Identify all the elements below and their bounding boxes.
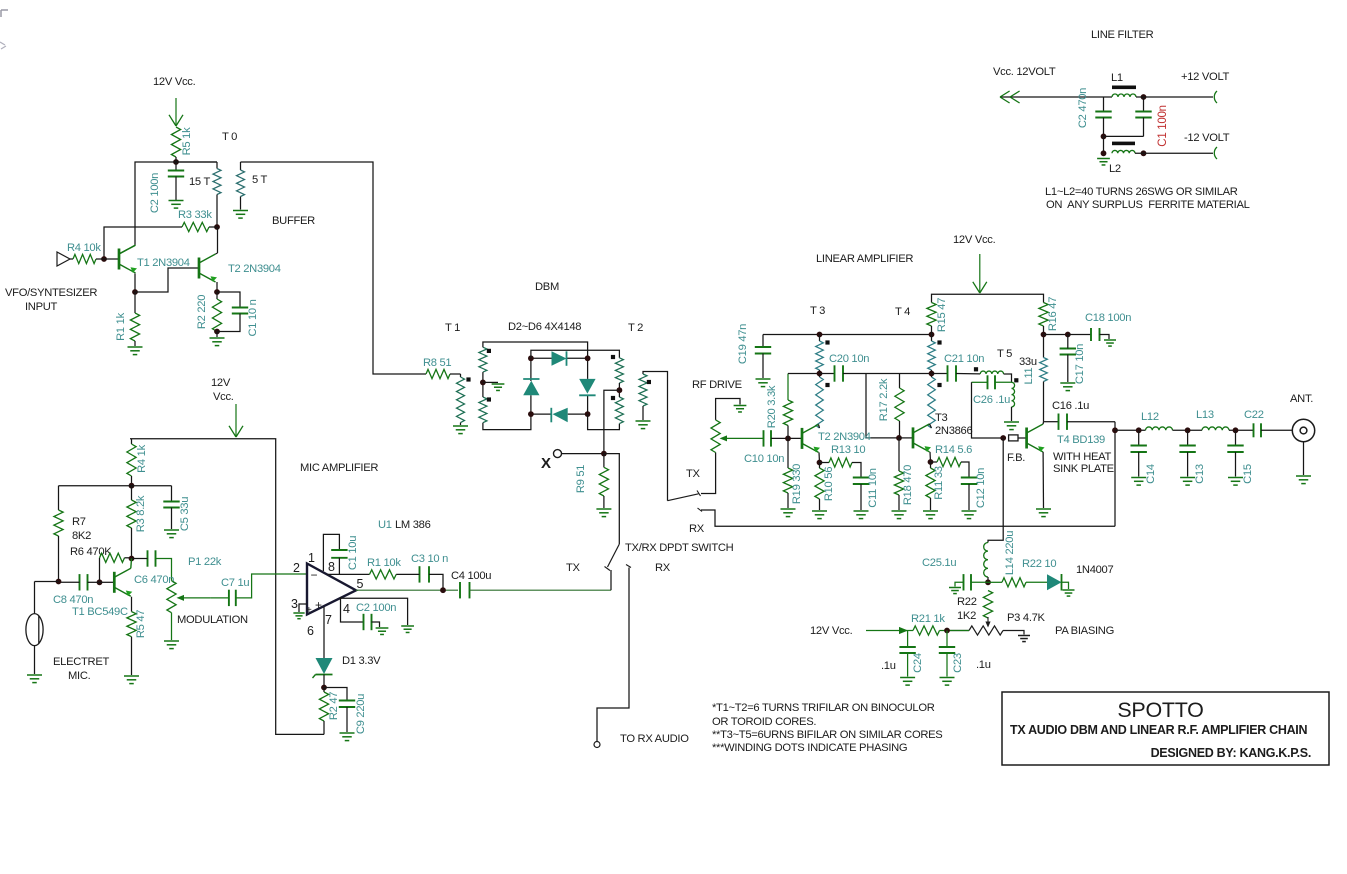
note L1L2 turns line2	[1046, 199, 1250, 211]
label C7 1u	[221, 577, 249, 589]
ground mic	[27, 675, 42, 683]
svg-text:DESIGNED BY: KANG.K.P.S.: DESIGNED BY: KANG.K.P.S.	[1151, 746, 1311, 760]
node R6 base junction	[97, 579, 103, 585]
capacitor C2 (filter)	[1095, 97, 1111, 136]
capacitor C23	[939, 631, 955, 677]
phasing dot T1 sec top	[487, 349, 491, 353]
ground T2 secondary	[636, 421, 651, 429]
transformer T5 primary	[980, 371, 1011, 382]
svg-text:MODULATION: MODULATION	[177, 614, 248, 626]
label L1	[1111, 72, 1123, 84]
label C11 10n	[867, 468, 879, 507]
node mic input junction	[56, 579, 62, 585]
wire T2 tap to X	[604, 390, 620, 453]
svg-text:C14: C14	[1145, 464, 1157, 484]
svg-text:R19 330: R19 330	[791, 464, 803, 504]
node C-junction left	[1101, 134, 1144, 140]
svg-text:T2 2N3904: T2 2N3904	[818, 431, 871, 443]
label MODULATION	[177, 614, 248, 626]
node FB junction	[1000, 435, 1006, 441]
resistor R1	[130, 292, 139, 346]
svg-text:C19 47n: C19 47n	[737, 324, 749, 364]
label R5 1k	[181, 127, 193, 155]
resistor R4 (mic)	[127, 439, 136, 486]
node L2 left junction	[1101, 150, 1107, 156]
wire L1 to +12 terminal	[1136, 96, 1213, 98]
svg-text:C13: C13	[1194, 464, 1206, 484]
node T2a emitter junction	[817, 460, 823, 466]
svg-text:ELECTRET: ELECTRET	[53, 656, 110, 668]
inductor L13	[1202, 427, 1229, 430]
label R5 47	[135, 610, 147, 638]
resistor R15	[927, 303, 936, 335]
svg-text:*T1~T2=6 TURNS TRIFILAR ON BIN: *T1~T2=6 TURNS TRIFILAR ON BINOCULOR	[712, 702, 935, 714]
note 3	[712, 729, 942, 741]
label 33u	[1019, 356, 1037, 368]
phasing dot T1 sec bottom	[487, 397, 491, 401]
transformer T0 secondary 5T	[237, 162, 245, 210]
label L11	[1023, 367, 1035, 384]
pin 2	[293, 561, 300, 575]
switch upper lever	[668, 491, 701, 501]
svg-text:C5 33u: C5 33u	[179, 497, 191, 531]
svg-text:12V: 12V	[211, 377, 231, 389]
svg-text:RF DRIVE: RF DRIVE	[692, 379, 742, 391]
label R4 1k (mic)	[136, 444, 148, 472]
svg-text:WITH HEAT: WITH HEAT	[1053, 451, 1111, 463]
node rail T3 junction	[817, 332, 823, 338]
transformer T5 secondary	[1012, 382, 1015, 421]
resistor R16	[1039, 303, 1048, 335]
svg-text:T4 BD139: T4 BD139	[1057, 434, 1105, 446]
resistor R4	[70, 254, 96, 263]
svg-text:R3 33k: R3 33k	[178, 209, 212, 221]
wire pin4 to ground2	[341, 598, 408, 625]
pin 1	[308, 551, 315, 565]
wire ring bottom edge	[531, 413, 588, 415]
label ELECTRET	[53, 656, 110, 668]
svg-text:T1 2N3904: T1 2N3904	[137, 257, 190, 269]
svg-text:2N3866: 2N3866	[935, 425, 972, 437]
transistor T1 2N3904	[119, 245, 137, 273]
svg-text:33u: 33u	[1019, 356, 1037, 368]
label .1u (C24)	[881, 660, 896, 672]
capacitor C25	[955, 574, 988, 590]
node T3a emitter junction	[928, 459, 934, 465]
label R14 5.6	[935, 444, 972, 456]
op-amp plus outside	[306, 605, 312, 616]
wire upper RX line	[701, 510, 1115, 526]
capacitor C7	[210, 574, 307, 606]
transformer T0 primary 15T	[176, 162, 221, 227]
transistor T2 2N3904	[199, 254, 217, 282]
node T1 center tap	[480, 380, 486, 386]
svg-text:***WINDING DOTS INDICATE PHASI: ***WINDING DOTS INDICATE PHASING	[712, 742, 907, 754]
wire junction to R7	[59, 486, 132, 510]
ground C18	[1104, 340, 1116, 346]
svg-text:C12 10n: C12 10n	[975, 468, 987, 508]
label R1 1k	[115, 312, 127, 340]
svg-text:L12: L12	[1141, 411, 1159, 423]
ground C9	[340, 733, 355, 741]
resistor R13	[820, 458, 862, 478]
wiper P3 arrow	[985, 617, 990, 628]
svg-text:L2: L2	[1109, 163, 1121, 175]
label RX lower	[655, 562, 671, 574]
ground T1 center tap	[492, 384, 505, 390]
svg-text:**T3~T5=6URNS BIFILAR ON SIMIL: **T3~T5=6URNS BIFILAR ON SIMILAR CORES	[712, 729, 942, 741]
ground R18	[892, 511, 907, 519]
label 8K2	[72, 530, 91, 542]
label R8 51	[423, 357, 451, 369]
wire X to junction	[562, 453, 604, 455]
label -12 VOLT	[1184, 132, 1230, 144]
wire junction to C5	[132, 485, 172, 487]
pin 8	[328, 560, 335, 574]
svg-text:T 2: T 2	[628, 322, 643, 334]
resistor R22 10	[988, 578, 1047, 587]
label TX near C4	[566, 562, 581, 574]
wire T4a emitter down	[1042, 452, 1044, 508]
inductor L2 core bar	[1112, 142, 1135, 146]
label WITH HEAT	[1053, 451, 1111, 463]
label T 1	[445, 322, 460, 334]
node R16 bottom junction	[1041, 332, 1047, 338]
label C1 100n	[1157, 105, 1169, 146]
svg-text:ON ANY SURPLUS FERRITE MATER: ON ANY SURPLUS FERRITE MATERIAL	[1046, 199, 1250, 211]
wire C22 to ANT	[1261, 429, 1292, 431]
wire ring TL to T2 top	[531, 350, 620, 358]
svg-text:C10 10n: C10 10n	[744, 453, 784, 465]
switch upper RX contact	[698, 508, 703, 512]
svg-text:TX AUDIO DBM AND LINEAR R.F. A: TX AUDIO DBM AND LINEAR R.F. AMPLIFIER C…	[1010, 723, 1307, 737]
label L2	[1109, 163, 1121, 175]
capacitor C3	[396, 566, 443, 590]
transformer T2 secondary	[639, 372, 668, 501]
svg-text:C18 100n: C18 100n	[1085, 312, 1131, 324]
svg-text:VFO/SYNTESIZER: VFO/SYNTESIZER	[5, 287, 97, 299]
capacitor C13	[1179, 430, 1195, 476]
label RX upper	[689, 523, 705, 535]
label T 3	[810, 305, 825, 317]
wire output box right side	[1114, 422, 1116, 527]
svg-text:P3 4.7K: P3 4.7K	[1007, 612, 1046, 624]
wire ring BR to T2 bottom	[588, 414, 620, 430]
label RF DRIVE	[692, 379, 742, 391]
label C6 470n	[134, 574, 174, 586]
pin 3	[291, 597, 298, 611]
svg-text:T 3: T 3	[810, 305, 825, 317]
transformer T1 secondary upper	[479, 347, 487, 372]
label +12 VOLT	[1181, 71, 1230, 83]
label P1 22k	[188, 556, 222, 568]
svg-text:X: X	[541, 455, 551, 472]
svg-text:TX: TX	[686, 468, 701, 480]
label R13 10	[831, 444, 865, 456]
ground R5 mic	[124, 676, 139, 684]
svg-text:5: 5	[357, 577, 364, 591]
ground 2 (LM386)	[401, 626, 414, 632]
resistor R22 1K2	[983, 591, 992, 619]
label D1 3.3V	[342, 655, 381, 667]
capacitor C1 (filter)	[1135, 97, 1151, 136]
title SPOTTO	[1117, 698, 1203, 722]
svg-text:R9 51: R9 51	[575, 465, 587, 493]
wire upper TX contact to pot	[701, 453, 716, 494]
node ring top-left	[528, 355, 534, 361]
ground C13	[1180, 478, 1195, 486]
transformer T4 lower winding	[928, 370, 936, 428]
resistor R2 (LM386)	[319, 688, 328, 735]
wire T4a collector up	[1042, 422, 1044, 424]
svg-text:1K2: 1K2	[957, 610, 976, 622]
svg-text:12V Vcc.: 12V Vcc.	[953, 234, 996, 246]
resistor R1 (LM386)	[370, 570, 397, 579]
node ring bottom-left	[528, 411, 534, 417]
ground T1 primary	[453, 426, 468, 434]
svg-text:C15: C15	[1242, 464, 1254, 484]
svg-text:BUFFER: BUFFER	[272, 215, 315, 227]
svg-text:T3: T3	[935, 412, 948, 424]
label BUFFER	[272, 215, 315, 227]
label C24	[912, 653, 924, 673]
label .1u (C23)	[976, 659, 991, 671]
svg-text:12V Vcc.: 12V Vcc.	[153, 76, 196, 88]
node R3/T2 collector junction	[209, 224, 220, 230]
wire RF pot top to ground	[716, 399, 740, 420]
phasing dot T2 sec	[647, 380, 651, 384]
ground C17	[1060, 383, 1075, 391]
label C16 .1u	[1052, 400, 1089, 412]
note 4	[712, 742, 907, 754]
wire L13 to C22	[1229, 429, 1254, 431]
svg-text:R10 56: R10 56	[823, 467, 835, 501]
svg-text:OR TOROID CORES.: OR TOROID CORES.	[712, 716, 816, 728]
svg-text:C16 .1u: C16 .1u	[1052, 400, 1089, 412]
capacitor C17	[1060, 335, 1076, 383]
label C20 10n	[829, 353, 869, 365]
terminal ANT	[1292, 419, 1314, 441]
label T4 BD139	[1057, 434, 1105, 446]
wire R6jct to T1 base	[100, 581, 115, 583]
label C18 100n	[1085, 312, 1131, 324]
ground R1	[128, 347, 143, 355]
svg-text:6: 6	[307, 624, 314, 638]
svg-text:R2 47: R2 47	[328, 692, 340, 720]
svg-text:C2 100n: C2 100n	[149, 173, 161, 213]
terminal X	[554, 450, 562, 458]
ground R2	[210, 338, 225, 346]
ground RF pot	[734, 406, 747, 412]
svg-text:−: −	[311, 568, 318, 582]
svg-text:T 5: T 5	[997, 348, 1012, 360]
title line2	[1010, 723, 1307, 737]
label C2 100n	[149, 173, 161, 213]
wire L2 to -12 terminal	[1135, 152, 1213, 154]
svg-text:C25.1u: C25.1u	[922, 557, 956, 569]
label VFO input line2	[25, 301, 58, 313]
svg-text:R22 10: R22 10	[1022, 558, 1056, 570]
label F.B.	[1007, 452, 1025, 464]
capacitor C10	[764, 430, 772, 446]
svg-text:C1 10u: C1 10u	[347, 536, 359, 570]
label 5 T	[252, 174, 268, 186]
label T 2	[628, 322, 643, 334]
label T3 (2N3866) line2	[935, 425, 972, 437]
ground C12	[962, 511, 977, 519]
phasing dot T4 lower	[937, 383, 941, 387]
capacitor C1 10u loop	[323, 534, 347, 574]
note L1L2 turns line1	[1045, 186, 1238, 198]
label 12V Vcc (bias)	[810, 625, 853, 637]
node C13 junction	[1185, 427, 1191, 433]
svg-text:R13 10: R13 10	[831, 444, 865, 456]
svg-text:C6 470n: C6 470n	[134, 574, 174, 586]
node 12V Vcc (mic amp) line1	[211, 377, 231, 389]
label T1 BC549C	[72, 606, 128, 618]
capacitor C14	[1131, 430, 1147, 476]
svg-text:TO RX AUDIO: TO RX AUDIO	[620, 733, 689, 745]
label LINE FILTER	[1091, 29, 1154, 41]
transformer T1 secondary lower	[479, 397, 487, 423]
phasing dot T3 upper	[825, 340, 829, 344]
label C14	[1145, 464, 1157, 484]
svg-text:C23: C23	[952, 653, 964, 673]
svg-text:C21 10n: C21 10n	[944, 353, 984, 365]
node R21 junction	[944, 628, 950, 634]
resistor R5 47 (mic)	[127, 597, 136, 675]
resistor R7	[54, 510, 63, 582]
svg-text:R5 1k: R5 1k	[181, 127, 193, 155]
diode D left	[523, 379, 539, 395]
label R19 330	[791, 464, 803, 504]
wire T2 prim mid	[618, 383, 620, 397]
svg-text:C2 470n: C2 470n	[1077, 88, 1089, 128]
label C5 33u	[179, 497, 191, 531]
wire ring top edge	[531, 357, 588, 359]
capacitor C2 (buffer)	[168, 162, 184, 200]
capacitor C1 (buffer)	[217, 292, 248, 332]
op-amp U1 triangle	[307, 564, 356, 615]
capacitor C9	[324, 688, 355, 733]
label PA BIASING	[1055, 625, 1114, 637]
diode 1N4007	[1047, 574, 1069, 591]
svg-text:8K2: 8K2	[72, 530, 91, 542]
label R7	[72, 516, 86, 528]
transistor T4 BD139	[1027, 424, 1045, 452]
svg-text:PA BIASING: PA BIASING	[1055, 625, 1114, 637]
svg-text:R15 47: R15 47	[936, 298, 948, 332]
wire R16jct to C17	[1044, 334, 1068, 336]
svg-text:8: 8	[328, 560, 335, 574]
wiper RF pot	[720, 435, 763, 441]
label T3 (2N3866) line1	[935, 412, 948, 424]
ground C25	[949, 588, 961, 594]
wire pin5 output	[356, 589, 458, 591]
svg-text:D2~D6 4X4148: D2~D6 4X4148	[508, 321, 581, 333]
svg-text:C4 100u: C4 100u	[451, 570, 491, 582]
inductor L1 core bar	[1112, 86, 1136, 90]
wire R5 to junction	[175, 157, 177, 162]
node C14 junction	[1136, 427, 1142, 433]
op-amp minus sign	[311, 568, 318, 582]
node L14 bottom junction	[985, 579, 991, 585]
label C13	[1194, 464, 1206, 484]
note 2	[712, 716, 816, 728]
svg-text:T 1: T 1	[445, 322, 460, 334]
svg-text:Vcc.: Vcc.	[213, 391, 234, 403]
ground C2 buffer	[169, 201, 184, 209]
svg-text:R17 2.2k: R17 2.2k	[878, 378, 890, 421]
node T4 center tap	[929, 371, 935, 377]
label R20 3.3k	[766, 385, 778, 428]
wire X junction to switch	[604, 454, 619, 544]
capacitor C5	[163, 486, 179, 529]
resistor R3	[182, 222, 209, 231]
node T1 emitter junction	[132, 289, 138, 295]
svg-text:C11 10n: C11 10n	[867, 468, 879, 507]
svg-text:T1 BC549C: T1 BC549C	[72, 606, 128, 618]
label T1 2N3904	[137, 257, 190, 269]
svg-text:T 4: T 4	[895, 306, 910, 318]
inductor L12	[1146, 427, 1173, 430]
input terminal triangle	[57, 252, 70, 266]
svg-text:P1 22k: P1 22k	[188, 556, 222, 568]
svg-text:C2 100n: C2 100n	[356, 602, 396, 614]
label R22 10	[1022, 558, 1056, 570]
svg-text:R8 51: R8 51	[423, 357, 451, 369]
inductor L14	[984, 543, 988, 583]
svg-text:C20 10n: C20 10n	[829, 353, 869, 365]
wire T2a collector	[819, 424, 820, 428]
wire T1 emitter down	[134, 274, 136, 293]
label C1 10 n	[247, 299, 259, 336]
node R4 bottom junction	[129, 483, 135, 489]
zener D1	[313, 658, 333, 687]
capacitor C11	[853, 478, 869, 511]
svg-text:L11: L11	[1023, 367, 1035, 384]
label C25.1u	[922, 557, 956, 569]
capacitor C26	[972, 375, 1012, 389]
svg-text:4: 4	[343, 602, 350, 616]
wire pin4 chain	[341, 597, 364, 622]
wire FB down to L14	[988, 438, 1003, 543]
svg-text:C8 470n: C8 470n	[53, 594, 93, 606]
label C4 100u	[451, 570, 491, 582]
node L1 output junction	[1141, 94, 1147, 100]
electret mic symbol	[26, 582, 59, 675]
inductor L1	[1112, 94, 1136, 97]
title line3	[1151, 746, 1311, 760]
label R3 8.2k	[135, 495, 147, 532]
svg-text:+: +	[315, 598, 322, 612]
svg-text:15 T: 15 T	[189, 176, 210, 188]
node X junction	[601, 451, 607, 457]
node output junction	[1112, 427, 1118, 433]
label C1 10u	[347, 536, 359, 570]
svg-text:R14 5.6: R14 5.6	[935, 444, 972, 456]
svg-text:L1: L1	[1111, 72, 1123, 84]
capacitor C24	[899, 631, 915, 677]
label C26 .1u	[973, 394, 1010, 406]
node ring bottom-right	[585, 411, 591, 417]
svg-text:R22: R22	[957, 596, 977, 608]
wire ring left edge	[530, 358, 532, 414]
svg-text:C7 1u: C7 1u	[221, 577, 249, 589]
svg-text:C24: C24	[912, 653, 924, 673]
node T1 mic collector junction	[129, 556, 135, 562]
terminal -12	[1214, 147, 1217, 159]
